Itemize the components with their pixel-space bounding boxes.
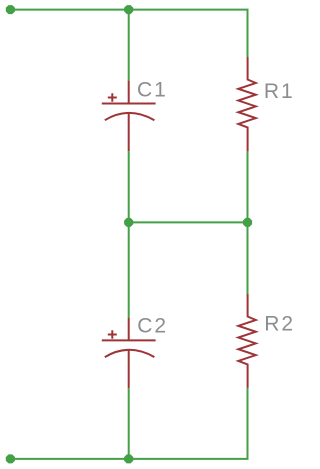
wire left branch between C1 and C2 (128, 151, 130, 318)
resistor R2 (238, 294, 256, 388)
svg-text:R1: R1 (264, 80, 295, 103)
node junction dot middle-left (124, 218, 133, 227)
node top-left terminal dot (6, 5, 15, 14)
node junction dot middle-right (243, 218, 252, 227)
svg-text:C1: C1 (137, 78, 168, 101)
resistor R1 (238, 57, 256, 151)
wire middle horizontal (129, 221, 248, 223)
node junction dot top (C1 branch) (124, 5, 133, 14)
wire right branch lower + bottom horizontal (10, 388, 247, 459)
capacitor C1 (102, 81, 156, 152)
node junction dot bottom (C2 branch) (124, 454, 133, 463)
svg-text:C2: C2 (137, 314, 168, 337)
wire left branch upper (top to C1) (128, 10, 130, 81)
capacitor C2 (102, 318, 156, 389)
svg-text:R2: R2 (264, 312, 295, 335)
wire top horizontal + right vertical segment (10, 10, 247, 57)
wire left branch lower (C2 to bottom) (128, 388, 130, 459)
node bottom-left terminal dot (6, 454, 15, 463)
wire right branch between R1 and R2 (247, 151, 249, 294)
